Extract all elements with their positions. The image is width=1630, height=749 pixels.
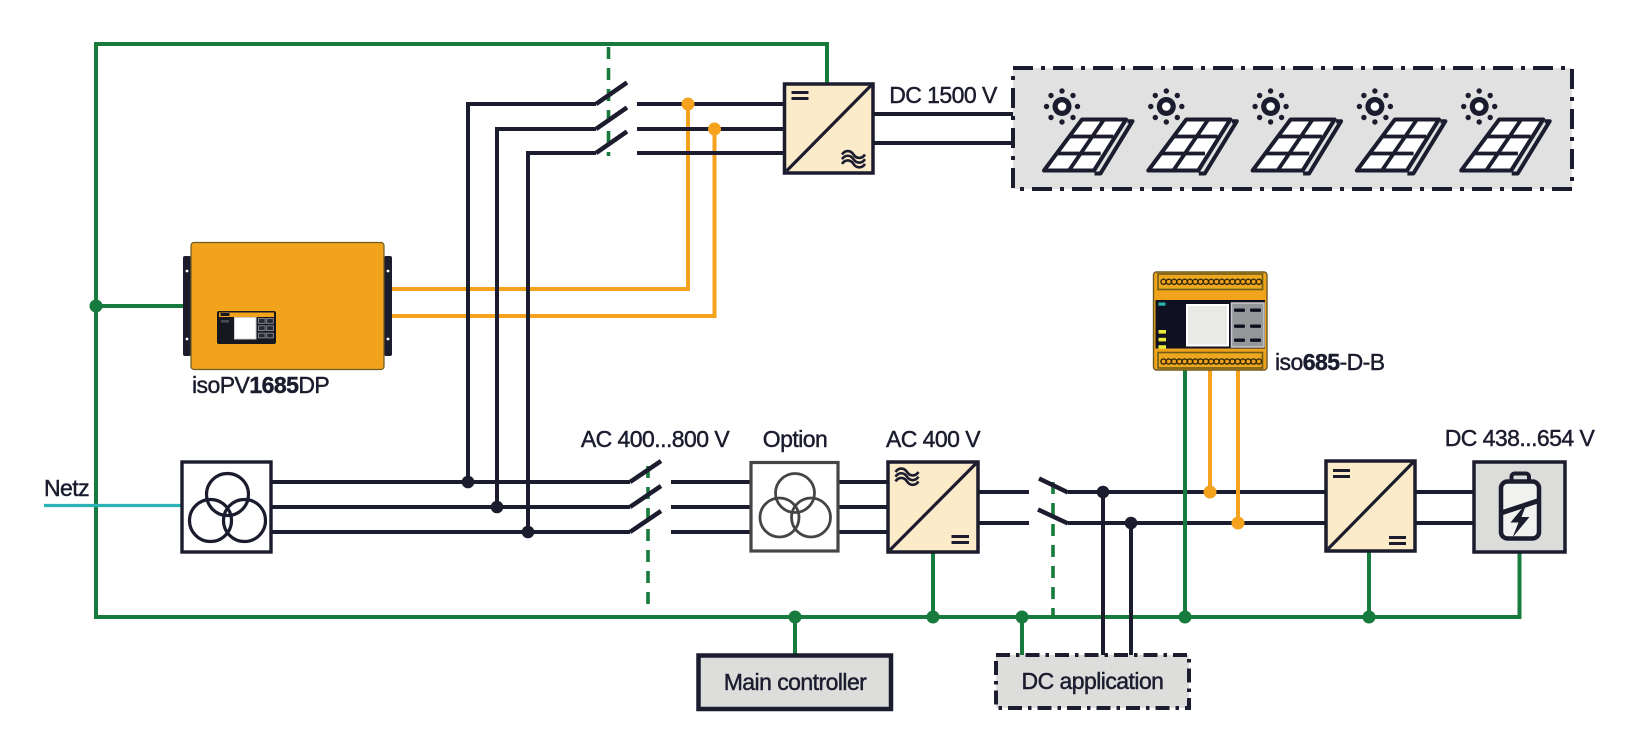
wire: DC- to PV array <box>873 141 1013 145</box>
wire: DC+ converter to disconnector <box>978 490 1029 494</box>
svg-text:Netz: Netz <box>44 475 89 501</box>
PV panel icon 2 <box>1148 88 1237 173</box>
wire: pole 1 to Option transformer <box>671 480 751 484</box>
node: orange tap on pole 2 <box>708 123 721 136</box>
switch blade: DC disconnector pole 1 <box>1039 479 1068 493</box>
wire: pole 2 to DC/AC inverter <box>637 127 785 131</box>
wire: green PE branch to isoPV1685DP <box>96 304 184 308</box>
wire: green PE left vertical <box>94 42 98 617</box>
node: black junction L1 riser <box>462 476 475 489</box>
switch blade: top disconnector pole 2 <box>596 108 627 130</box>
wire: L2 Option to AC/DC converter <box>838 505 888 509</box>
svg-text:iso685-D-B: iso685-D-B <box>1275 349 1385 375</box>
wire: phase L1 transformer to disconnector <box>271 480 630 484</box>
wire: green PE top bus <box>94 42 827 46</box>
wire: orange measuring lead 1 from isoPV1685DP <box>391 104 688 289</box>
transformer T1: grid transformer <box>182 462 271 552</box>
wire: DC- run to DC/DC converter <box>1068 521 1326 525</box>
wire: green dashed coupling link, top disconnector <box>607 47 611 156</box>
wire: DC+ drop to DC application <box>1101 492 1105 655</box>
node: green junction at iso685 PE <box>1179 611 1192 624</box>
node: orange tap on DC- <box>1232 517 1245 530</box>
battery BT1: storage battery box <box>1474 462 1565 552</box>
node: black junction L3 riser <box>522 526 535 539</box>
svg-text:DC application: DC application <box>1022 668 1164 694</box>
node: green junction at Main controller drop <box>789 611 802 624</box>
wire: DC+ run to DC/DC converter <box>1068 490 1326 494</box>
switch blade: AC disconnector pole 2 <box>630 486 661 507</box>
svg-text:DC 1500 V: DC 1500 V <box>889 82 998 108</box>
wire: L3 Option to AC/DC converter <box>838 530 888 534</box>
wire: phase L3 transformer to disconnector <box>271 530 630 534</box>
svg-text:AC 400...800 V: AC 400...800 V <box>581 426 731 452</box>
wire: green drop to DC application <box>1020 617 1024 655</box>
wire: DC- converter to battery <box>1415 521 1474 525</box>
converter U1: DC/AC inverter (top) <box>785 84 874 173</box>
node: black junction DC- tap <box>1125 517 1138 530</box>
wire: DC+ to PV array <box>873 112 1013 116</box>
DC application box (dash-dot) <box>996 655 1189 708</box>
node: black junction DC+ tap <box>1097 486 1110 499</box>
wire: green dashed coupling link, AC 400...800 V disconnector <box>646 466 650 606</box>
wire: phase L1 riser + top run <box>468 104 596 482</box>
wire: orange measuring lead 2 from iso685-D-B <box>1236 370 1240 523</box>
wire: DC+ converter to battery <box>1415 490 1474 494</box>
wire: DC- drop to DC application <box>1129 523 1133 655</box>
wire: phase L3 riser + top run <box>528 153 596 532</box>
node: orange tap on pole 1 <box>682 98 695 111</box>
switch blade: AC disconnector pole 3 <box>630 511 661 532</box>
wire: DC- converter to disconnector <box>978 521 1029 525</box>
svg-text:Option: Option <box>763 426 827 452</box>
PV panel icon 4 <box>1357 88 1446 173</box>
wire: green PE from DC/DC converter bottom <box>1367 551 1371 617</box>
svg-text:DC 438...654 V: DC 438...654 V <box>1445 425 1596 451</box>
PV panel icon 5 <box>1461 88 1550 173</box>
transformer T2: Option isolating transformer <box>751 463 838 552</box>
svg-text:AC 400 V: AC 400 V <box>886 426 981 452</box>
node: orange tap on DC+ <box>1204 486 1217 499</box>
wire: green PE from AC/DC converter bottom <box>931 552 935 617</box>
svg-text:isoPV1685DP: isoPV1685DP <box>192 372 329 398</box>
converter U3: DC/DC converter <box>1326 461 1415 551</box>
Main controller box <box>699 656 892 710</box>
wire: green dashed coupling link, DC-side disconnector <box>1051 482 1055 615</box>
wire: green PE riser to battery <box>1518 552 1522 619</box>
svg-text:Main controller: Main controller <box>724 669 867 695</box>
switch blade: top disconnector pole 3 <box>596 132 627 154</box>
wire: orange measuring lead 2 from isoPV1685DP <box>391 129 715 316</box>
switch blade: AC disconnector pole 1 <box>630 461 661 482</box>
wire: orange measuring lead 1 from iso685-D-B <box>1208 370 1212 492</box>
PV panel icon 3 <box>1252 88 1341 173</box>
wire: L1 Option to AC/DC converter <box>838 480 888 484</box>
wire: pole 1 to DC/AC inverter <box>637 102 785 106</box>
node: green junction at AC/DC converter riser <box>927 611 940 624</box>
switch blade: DC disconnector pole 2 <box>1038 510 1068 524</box>
wire: Netz supply (cyan) <box>44 504 182 507</box>
PV panel icon 1 <box>1044 88 1133 173</box>
wire: green PE from iso685-D-B <box>1183 370 1187 617</box>
wire: pole 3 to Option transformer <box>671 530 751 534</box>
device: isoPV1685DP insulation monitor <box>183 243 392 370</box>
wire: green PE bottom bus <box>94 615 1520 619</box>
wire: pole 3 to DC/AC inverter <box>637 151 785 155</box>
wire: phase L2 riser + top run <box>497 129 596 507</box>
node: green junction at DC application drop <box>1016 611 1029 624</box>
wire: phase L2 transformer to disconnector <box>271 505 630 509</box>
node: green junction at left bus / isoPV branch <box>90 300 103 313</box>
wire: pole 2 to Option transformer <box>671 505 751 509</box>
node: green junction at DC/DC converter riser <box>1363 611 1376 624</box>
converter U2: AC/DC rectifier <box>888 462 978 552</box>
node: black junction L2 riser <box>491 501 504 514</box>
switch blade: top disconnector pole 1 <box>596 83 627 105</box>
wire: green drop to Main controller <box>793 617 797 656</box>
wire: green PE drop to DC/AC inverter <box>825 42 829 84</box>
PV array (dash-dot box with 5 panels) <box>1013 68 1572 189</box>
device: iso685-D-B insulation monitor <box>1154 272 1268 370</box>
